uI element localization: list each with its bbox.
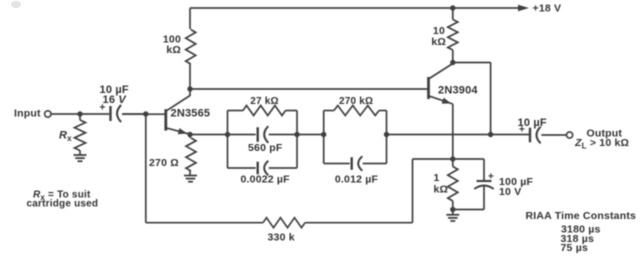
svg-text:75 µs: 75 µs xyxy=(561,242,589,254)
svg-text:+18 V: +18 V xyxy=(533,2,562,14)
svg-text:560 pF: 560 pF xyxy=(248,142,283,154)
svg-text:Input: Input xyxy=(14,107,41,119)
svg-text:kΩ: kΩ xyxy=(431,36,446,48)
svg-text:2N3904: 2N3904 xyxy=(438,85,478,97)
svg-text:270 kΩ: 270 kΩ xyxy=(339,96,373,107)
svg-text:1: 1 xyxy=(434,172,440,184)
svg-text:kΩ: kΩ xyxy=(166,44,181,56)
svg-text:27 kΩ: 27 kΩ xyxy=(250,96,278,107)
svg-text:0.0022 µF: 0.0022 µF xyxy=(241,174,291,186)
svg-text:RIAA Time Constants: RIAA Time Constants xyxy=(526,210,637,222)
svg-text:10 µF: 10 µF xyxy=(518,117,547,129)
svg-text:10 V: 10 V xyxy=(499,186,521,198)
svg-text:+: + xyxy=(488,172,494,183)
svg-text:kΩ: kΩ xyxy=(434,184,449,196)
svg-text:cartridge used: cartridge used xyxy=(27,199,99,210)
svg-text:16 V: 16 V xyxy=(103,94,128,106)
svg-text:330 k: 330 k xyxy=(268,232,295,244)
svg-text:2N3565: 2N3565 xyxy=(171,108,211,120)
svg-text:270 Ω: 270 Ω xyxy=(149,157,179,169)
svg-text:0.012 µF: 0.012 µF xyxy=(335,173,379,185)
